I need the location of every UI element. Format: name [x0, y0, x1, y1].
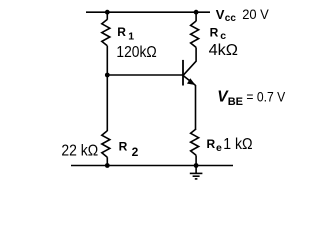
svg-text:R: R: [210, 26, 219, 40]
svg-text:22 kΩ: 22 kΩ: [61, 143, 98, 160]
resistor Rc: [191, 21, 199, 47]
svg-text:c: c: [220, 30, 226, 42]
svg-text:BE: BE: [228, 96, 243, 108]
svg-text:R: R: [117, 25, 126, 39]
svg-text:2: 2: [132, 145, 139, 159]
wire base lead: [107, 74, 183, 76]
wire right branch upper stub: [195, 12, 197, 21]
svg-text:R: R: [119, 140, 128, 154]
wire left branch upper stub: [106, 12, 108, 19]
svg-text:= 0.7 V: = 0.7 V: [246, 89, 285, 105]
resistor R1: [102, 19, 110, 45]
svg-text:20 V: 20 V: [242, 7, 269, 22]
svg-text:R: R: [207, 137, 216, 151]
node junction top left: [105, 10, 110, 15]
ground: [190, 166, 203, 179]
svg-text:1: 1: [128, 31, 134, 43]
node junction top right Vcc: [194, 10, 199, 15]
svg-text:V: V: [216, 7, 225, 22]
svg-text:4kΩ: 4kΩ: [209, 42, 238, 59]
wire left branch middle: [106, 46, 108, 131]
wire left branch lower stub: [106, 157, 108, 165]
wire emitter lead: [195, 85, 197, 129]
wire collector lead: [183, 47, 196, 75]
wire top rail Vcc: [86, 11, 210, 13]
resistor Re: [191, 129, 199, 155]
svg-text:120kΩ: 120kΩ: [116, 44, 156, 61]
svg-text:cc: cc: [225, 13, 237, 24]
svg-text:e: e: [216, 142, 222, 154]
wire right branch lower stub: [195, 155, 197, 165]
svg-text:1 kΩ: 1 kΩ: [223, 136, 252, 153]
transistor Q1 base bar: [182, 60, 184, 86]
node junction bottom right ground: [194, 163, 199, 168]
node junction bottom left: [105, 163, 110, 168]
transistor Q1 emitter with arrow: [183, 76, 195, 86]
wire bottom rail: [71, 165, 233, 167]
node junction base divider: [105, 73, 110, 78]
resistor R2: [102, 131, 110, 157]
